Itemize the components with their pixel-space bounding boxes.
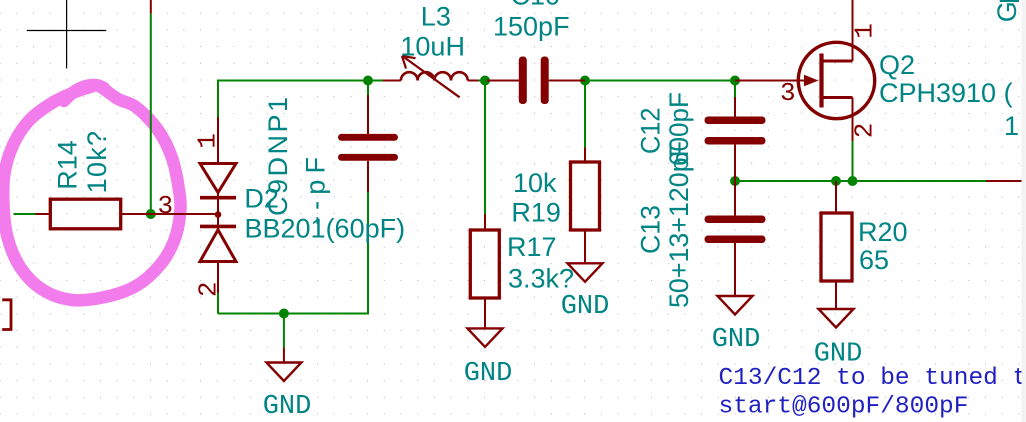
wire: R17 hang wire <box>484 82 486 214</box>
cursor crosshair <box>27 0 107 68</box>
pin: R14 right / D2 pin3 <box>121 213 218 215</box>
capacitor C13 plates <box>705 216 766 244</box>
pin: gnd stub below bottom-rail tap <box>283 348 285 363</box>
pin: Q2 gate wire <box>735 80 805 82</box>
svg-text:150pF: 150pF <box>493 12 570 42</box>
svg-text:3.3k?: 3.3k? <box>508 264 574 294</box>
svg-text:10k: 10k <box>513 168 557 198</box>
node: mid rail R20 <box>831 176 841 186</box>
svg-text:C13/C12 to be tuned to: C13/C12 to be tuned to <box>719 365 1026 392</box>
diode D2 (dual varactor, common cathode) <box>200 164 236 262</box>
capacitor C12 plates <box>705 117 766 145</box>
svg-text:50+13+120pF: 50+13+120pF <box>664 141 694 308</box>
wire: D2 bottom corner <box>217 293 219 314</box>
ground symbol (C13) <box>718 296 753 315</box>
wire: left vertical feed <box>150 13 152 214</box>
svg-text:R20: R20 <box>858 217 908 247</box>
svg-text:GND: GND <box>561 292 610 322</box>
resistor R20 <box>821 213 852 281</box>
pin: off-screen top feed <box>150 0 152 13</box>
pin: C12 top <box>734 97 736 117</box>
svg-text:GND: GND <box>263 392 312 422</box>
Q2 source link <box>822 96 853 99</box>
node: mid rail Q2 source <box>848 176 858 186</box>
wire: Q2 source down <box>852 141 854 181</box>
wire: C12 top stub <box>734 82 736 97</box>
svg-text:GND: GND <box>464 359 513 389</box>
pin: R17 top <box>484 214 486 230</box>
svg-text:start@600pF/800pF: start@600pF/800pF <box>719 394 969 421</box>
svg-text:1: 1 <box>193 133 223 149</box>
node: C10/R19 <box>580 76 590 86</box>
resistor R14 <box>50 199 120 229</box>
D2 top diode triangle <box>200 164 236 193</box>
svg-text:C13: C13 <box>636 205 666 254</box>
node: mid rail C12/C13 <box>730 176 740 186</box>
pin: C9 bottom <box>367 161 369 192</box>
ground symbol (R19) <box>568 263 603 282</box>
pin: Q2 source down <box>852 98 854 142</box>
wire: C9 top stub <box>367 81 369 96</box>
ground symbol (R20) <box>819 309 854 328</box>
node: L3/R17 <box>480 76 490 86</box>
resistor R19 <box>571 162 600 230</box>
pin: C13 bottom + gnd stub <box>734 243 736 296</box>
svg-text:CPH3910 (: CPH3910 ( <box>879 78 1013 108</box>
pin: C13 top <box>734 181 736 216</box>
svg-text:65: 65 <box>859 245 889 275</box>
wire: rail L3 to C10 <box>479 80 488 82</box>
svg-text:C12: C12 <box>636 108 666 155</box>
pin: D2 pin1 <box>217 117 219 164</box>
svg-text:R17: R17 <box>507 232 557 262</box>
bracket (off-screen component edge) <box>2 300 11 330</box>
svg-text:1: 1 <box>849 23 879 39</box>
resistor R17 <box>470 230 499 298</box>
D2 bottom diode triangle <box>200 230 236 262</box>
node: bottom rail GND tap <box>279 309 289 319</box>
pin: C10 right <box>549 80 585 82</box>
Q2 gate arrow <box>804 75 819 87</box>
wire: R14 right to junction <box>136 213 151 215</box>
node: R14/D2 pin3 <box>146 209 156 219</box>
svg-text:L3: L3 <box>421 2 451 32</box>
wires (green) <box>14 13 987 347</box>
pin: mid rail right off-screen <box>986 180 1026 182</box>
label N sliver (top edge, cut) <box>1000 0 1019 2</box>
D2 top cathode bar <box>200 196 236 200</box>
pin: R19 bottom + gnd stub <box>584 230 586 263</box>
node: C12 top rail <box>730 76 740 86</box>
pin: R19 top <box>584 148 586 163</box>
svg-text:3: 3 <box>158 191 174 221</box>
pin: D2 pin2 <box>217 262 219 293</box>
svg-text:BB201(60pF): BB201(60pF) <box>245 214 406 244</box>
wire: C9 bottom to bottom rail <box>218 192 368 314</box>
svg-text:2: 2 <box>194 281 224 297</box>
inductor L3 coils <box>401 72 468 80</box>
svg-text:R19: R19 <box>511 197 561 227</box>
pin: R14 left <box>36 213 51 215</box>
ground symbol (D2 branch) <box>266 363 301 382</box>
node: C9 top <box>363 76 373 86</box>
pin: C9 top <box>367 95 369 134</box>
svg-text:G: G <box>992 1 1022 22</box>
ground symbol (R17) <box>468 328 503 347</box>
pin: C12 bottom <box>734 145 736 182</box>
svg-text:D2: D2 <box>244 184 279 214</box>
wire: gnd stub at bottom rail <box>283 314 285 348</box>
freehand pink annotation circle around R14 <box>3 85 180 300</box>
Q2 drain link <box>822 60 853 63</box>
pin: C10 left <box>487 80 519 82</box>
pin: R20 bottom + gnd stub <box>835 281 837 309</box>
svg-text:2: 2 <box>849 123 879 139</box>
D2 center junction dot <box>215 211 222 218</box>
svg-text:C10: C10 <box>511 0 561 11</box>
svg-text:10k?: 10k? <box>82 130 112 194</box>
right edge strip <box>1022 0 1026 422</box>
pin: L3 left <box>383 80 401 82</box>
wire: mid rail <box>735 180 986 182</box>
svg-text:R14: R14 <box>53 140 83 190</box>
wire: top rail corner above D2 <box>218 81 383 118</box>
capacitor C9 plates <box>338 134 398 161</box>
wire: R14 left <box>14 213 36 215</box>
L3 variable arrow <box>402 56 460 97</box>
pin: R20 top <box>835 181 837 213</box>
svg-text:3: 3 <box>780 78 796 108</box>
pin: R17 bottom + gnd stub <box>484 298 486 328</box>
svg-text:1: 1 <box>1004 111 1019 141</box>
pin: Q2 drain up <box>852 0 854 61</box>
transistor Q2 <box>798 42 874 118</box>
capacitor C10 plates <box>519 57 549 105</box>
pin: L3 right <box>468 80 479 82</box>
Q2 gate bar <box>819 54 823 108</box>
pin: D2 internal <box>217 192 219 230</box>
svg-text:GND: GND <box>712 325 761 355</box>
svg-text:Q2: Q2 <box>879 50 915 80</box>
svg-text:10uH: 10uH <box>400 32 465 62</box>
wire: rail C10 to Q2 junction <box>550 80 736 82</box>
D2 bottom cathode bar <box>200 225 236 229</box>
wire: R19 hang wire <box>584 82 586 148</box>
